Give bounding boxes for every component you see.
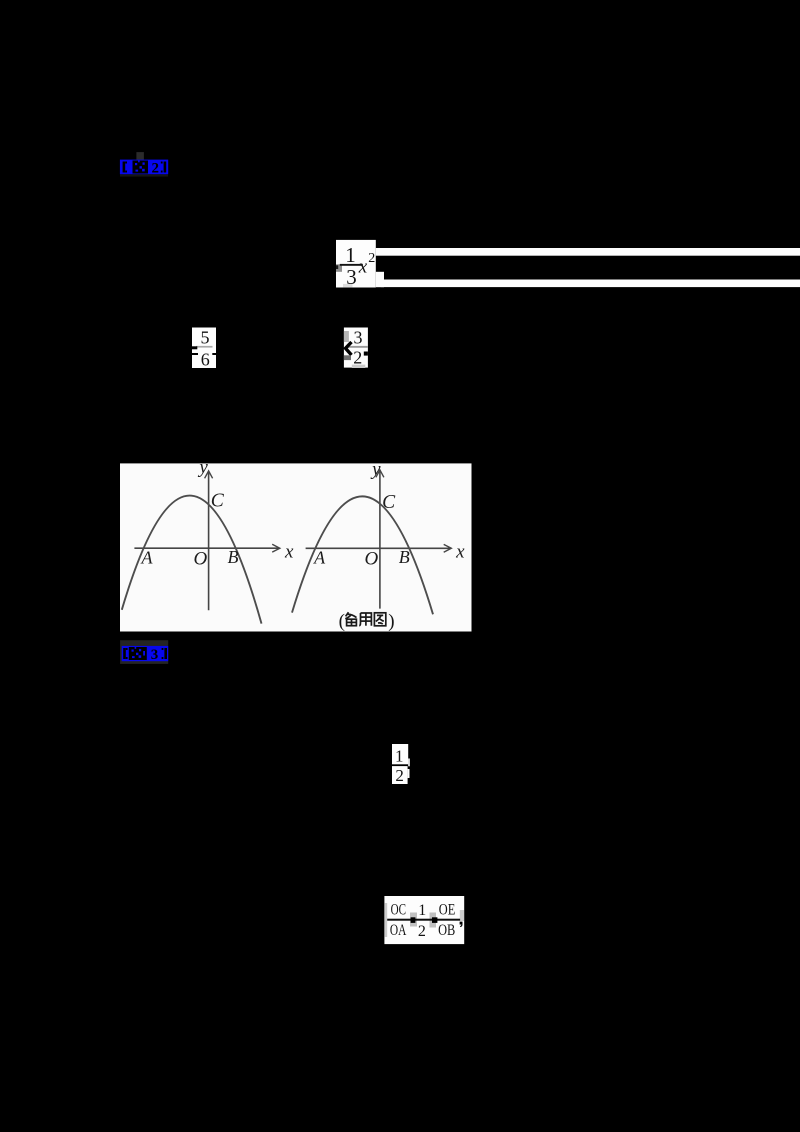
svg-text:1: 1 [418, 902, 426, 919]
svg-text:x: x [284, 541, 294, 562]
svg-text:1: 1 [345, 243, 356, 267]
svg-text:OC: OC [391, 902, 406, 919]
svg-text:OA: OA [390, 922, 407, 939]
svg-text:5: 5 [201, 328, 210, 348]
svg-text:3: 3 [346, 265, 357, 289]
svg-text:2: 2 [368, 251, 375, 266]
svg-text:A: A [141, 548, 154, 568]
svg-text:OE: OE [439, 902, 456, 919]
svg-text:(: ( [339, 611, 345, 632]
svg-text:2: 2 [152, 161, 160, 177]
svg-text:x: x [358, 257, 368, 278]
svg-text:O: O [194, 548, 208, 569]
svg-text:C: C [211, 491, 225, 512]
svg-text:A: A [313, 547, 326, 567]
svg-text:x: x [455, 541, 465, 562]
svg-text:B: B [228, 547, 239, 567]
svg-text:2: 2 [353, 348, 362, 368]
svg-text:1: 1 [395, 746, 404, 765]
svg-text:3: 3 [151, 647, 159, 663]
svg-text:): ) [388, 611, 394, 632]
svg-text:B: B [399, 547, 410, 567]
svg-text:C: C [382, 492, 396, 513]
svg-text:O: O [365, 548, 379, 569]
svg-text:6: 6 [201, 350, 210, 370]
svg-text:2: 2 [395, 766, 404, 785]
svg-text:OB: OB [438, 922, 455, 939]
svg-text:3: 3 [354, 328, 363, 348]
svg-text:2: 2 [418, 923, 426, 940]
svg-text:y: y [370, 459, 381, 480]
svg-text:y: y [197, 457, 208, 478]
